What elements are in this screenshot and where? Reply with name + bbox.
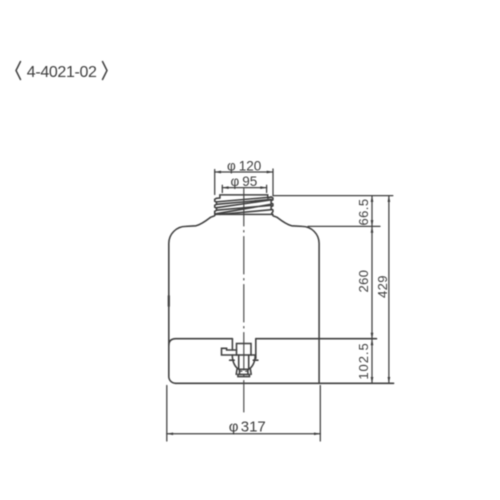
dim line 429 vertical <box>388 196 390 384</box>
bottom edge line <box>176 382 394 384</box>
arrows 66.5 <box>371 196 374 202</box>
ext line shoulder right <box>308 225 380 227</box>
neck flare <box>210 214 277 217</box>
dim phi95 extension lines <box>222 185 266 192</box>
svg-text:260: 260 <box>356 270 371 293</box>
svg-text:66.5: 66.5 <box>356 199 371 226</box>
valve nut <box>236 369 251 374</box>
svg-text:4-4021-02: 4-4021-02 <box>27 64 97 81</box>
recess band line <box>169 339 377 346</box>
arrows phi317 <box>167 432 173 435</box>
dim phi120 extension lines <box>215 169 273 196</box>
dim phi120 line <box>215 171 273 173</box>
valve body <box>237 344 252 356</box>
valve seat ticks <box>230 359 258 361</box>
neck lip <box>220 195 268 198</box>
dim phi317 extension lines <box>167 386 320 442</box>
dim phi317 line <box>167 433 320 435</box>
centerline <box>243 189 245 413</box>
dim phi95 line <box>222 187 266 189</box>
wall seam mark <box>168 296 170 306</box>
valve bell <box>232 355 255 369</box>
svg-text:φ317: φ317 <box>229 419 266 436</box>
valve notch right vertical <box>255 339 257 359</box>
valve tip bar <box>238 374 250 376</box>
svg-text:429: 429 <box>375 275 390 298</box>
thread band bottom <box>215 213 273 215</box>
ext line neck top right <box>273 195 393 197</box>
arrows 429 <box>388 196 391 202</box>
thread right edge bumps <box>268 197 273 215</box>
valve handle <box>222 348 237 355</box>
arrows phi95 <box>222 186 228 189</box>
thread left edge bumps <box>215 198 220 214</box>
valve notch left vertical <box>231 339 233 350</box>
svg-text:φ95: φ95 <box>231 174 258 189</box>
svg-text:102.5: 102.5 <box>356 342 371 379</box>
arrows 102.5 <box>371 339 374 345</box>
dimensions <box>167 158 393 441</box>
arrows phi120 <box>215 171 221 174</box>
arrows 260 <box>371 226 374 232</box>
body outline <box>169 218 319 384</box>
thread helix lines <box>216 197 271 214</box>
title brackets <box>16 62 107 80</box>
dim line 66.5/260/102.5 vertical <box>371 196 373 384</box>
valve flange <box>251 354 255 356</box>
valve nut dashes <box>240 370 248 372</box>
valve tube <box>239 355 249 369</box>
svg-text:φ120: φ120 <box>227 158 261 173</box>
